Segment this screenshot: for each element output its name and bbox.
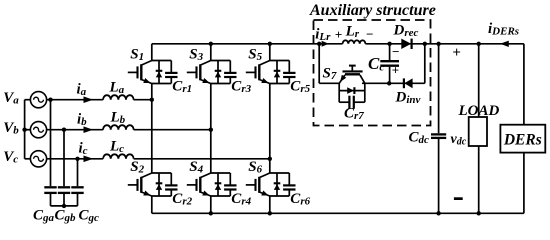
transistor S4 (IGBT): [187, 173, 211, 196]
label La: [109, 79, 125, 96]
svg-text:Cr6: Cr6: [290, 191, 310, 208]
inductor Lr: [343, 40, 366, 44]
svg-text:S1: S1: [130, 46, 144, 63]
junction: phase b / leg: [209, 128, 213, 132]
junction: LOAD / top rail: [477, 42, 481, 46]
label Cdc: [409, 130, 430, 147]
svg-text:Cdc: Cdc: [409, 130, 430, 147]
wire: top DC rail (Lr to DERs corner): [365, 43, 524, 45]
svg-text:La: La: [109, 79, 125, 96]
svg-text:iLr: iLr: [315, 26, 331, 43]
label Cc: [368, 54, 384, 74]
svg-text:Lb: Lb: [110, 109, 126, 126]
label - (Lr right polarity): [366, 27, 374, 42]
svg-text:ic: ic: [79, 141, 88, 158]
filter capacitor Cgc: [71, 159, 83, 206]
label S3: [189, 46, 203, 63]
svg-text:iDERs: iDERs: [488, 21, 519, 38]
wire: leg 2 lower: [210, 196, 212, 213]
wire: source left bus: [25, 100, 31, 159]
label Lc: [109, 139, 124, 156]
label Cr2: [172, 191, 192, 208]
svg-text:Cr4: Cr4: [231, 191, 251, 208]
snubber capacitor C_r3: [224, 61, 236, 84]
junction: Cdc / bottom rail: [436, 211, 440, 215]
svg-text:Va: Va: [3, 90, 19, 107]
antiparallel diode of S7: [339, 87, 365, 94]
svg-text:Cc: Cc: [368, 54, 384, 74]
label: Auxiliary structure title: [309, 2, 436, 19]
antiparallel diode of S2: [156, 173, 163, 196]
label S1: [130, 46, 144, 63]
wire: S3 cell bottom stub: [211, 83, 231, 85]
svg-text:S2: S2: [130, 159, 144, 176]
wire: S4 cell bottom stub: [211, 195, 231, 197]
transistor S7 (IGBT): [339, 66, 365, 84]
junction: leg2 / top rail: [209, 42, 213, 46]
wire: S3 cell top stub: [211, 60, 231, 62]
junction: phase a / leg: [150, 98, 154, 102]
wire: S6 cell bottom stub: [270, 195, 290, 197]
label DERs: [503, 132, 542, 149]
wire: aux right vertical: [424, 44, 426, 84]
capacitor Cdc: [431, 44, 446, 214]
transistor S3 (IGBT): [187, 61, 211, 84]
label Cgb: [55, 207, 77, 224]
AC source Vb: [30, 122, 46, 138]
label + (Lr left polarity): [335, 27, 342, 42]
label Lr: [345, 23, 360, 40]
filter capacitor Cga: [44, 100, 56, 206]
antiparallel diode of S1: [156, 61, 163, 84]
label S4: [189, 159, 203, 176]
junction: filter cap bus: [62, 204, 66, 208]
wire: S7 branch vertical (rail to S7): [318, 44, 320, 84]
wire: leg 1 lower: [151, 196, 153, 213]
label Vb: [3, 120, 19, 137]
svg-text:ia: ia: [77, 82, 87, 99]
snubber capacitor C_r1: [165, 61, 177, 84]
wire: phase a (inductor to leg): [134, 99, 152, 101]
wire: phase b (inductor to leg): [134, 129, 211, 131]
label Cr7: [344, 106, 364, 123]
svg-text:Cga: Cga: [33, 207, 55, 224]
load resistor box: [469, 117, 487, 146]
wire: bottom DC rail: [152, 212, 524, 214]
svg-text:+: +: [392, 63, 399, 78]
label iLr: [315, 26, 331, 43]
transistor S1 (IGBT): [128, 61, 152, 84]
junction: LOAD / bottom rail: [477, 211, 481, 215]
current arrow iDERs: [500, 41, 509, 47]
DERs box: [500, 125, 545, 153]
label ic: [79, 141, 88, 158]
label Cgc: [79, 207, 100, 224]
label Va: [3, 90, 19, 107]
junction: leg2 / bottom rail: [209, 211, 213, 215]
junction: top rail / S7 branch: [317, 42, 321, 46]
svg-text:−: −: [392, 44, 400, 59]
junction: Cc / S7 / Dinv node: [387, 81, 391, 85]
wire: DERs branch lower: [523, 153, 525, 214]
label Cga: [33, 207, 55, 224]
wire: S7 loop left vertical: [338, 83, 340, 102]
wire: S2 cell bottom stub: [152, 195, 172, 197]
snubber capacitor C_r6: [283, 173, 295, 196]
svg-text:DERs: DERs: [503, 132, 542, 149]
wire: S1 cell top stub: [152, 60, 172, 62]
svg-text:+: +: [452, 45, 461, 61]
label Drec: [393, 23, 419, 40]
diode Drec: [401, 39, 411, 49]
wire: S7 loop right vertical: [364, 83, 366, 102]
svg-text:Cr1: Cr1: [172, 79, 192, 96]
capacitor Cc: [380, 44, 399, 84]
svg-text:−: −: [366, 27, 374, 42]
inductor La: [103, 95, 134, 100]
svg-text:Cr2: Cr2: [172, 191, 192, 208]
wire: S4 cell top stub: [211, 172, 231, 174]
antiparallel diode of S4: [215, 173, 222, 196]
label LOAD: [458, 103, 500, 119]
svg-text:Dinv: Dinv: [395, 90, 421, 107]
junction: top rail / aux right branch: [423, 42, 427, 46]
wire: top DC rail (bridge to Lr): [152, 43, 343, 45]
label Dinv: [395, 90, 421, 107]
AC source Va: [30, 92, 46, 108]
junction: leg3 / top rail: [268, 42, 272, 46]
junction: leg3 / bottom rail: [268, 211, 272, 215]
svg-text:vdc: vdc: [451, 132, 467, 148]
wire: S6 cell top stub: [270, 172, 290, 174]
inductor Lb: [103, 125, 134, 130]
label - (Cc top polarity): [392, 44, 400, 59]
snubber capacitor C_r5: [283, 61, 295, 84]
wire: leg 3 lower: [269, 196, 271, 213]
svg-text:Lc: Lc: [109, 139, 124, 156]
antiparallel diode of S5: [274, 61, 281, 84]
svg-text:Auxiliary structure: Auxiliary structure: [309, 2, 436, 19]
label vdc: [451, 132, 467, 148]
junction: left bus / Vb: [22, 128, 26, 132]
label ia: [77, 82, 87, 99]
label S6: [248, 159, 262, 176]
svg-text:Vc: Vc: [3, 149, 18, 166]
label Cr6: [290, 191, 310, 208]
wire: LOAD branch upper: [478, 44, 480, 117]
svg-text:ib: ib: [77, 112, 87, 129]
antiparallel diode of S6: [274, 173, 281, 196]
current arrow ib: [84, 126, 94, 133]
svg-text:Cr3: Cr3: [231, 79, 251, 96]
label Cr4: [231, 191, 251, 208]
transistor S5 (IGBT): [246, 61, 270, 84]
wire: S5 cell top stub: [270, 60, 290, 62]
AC source Vc: [30, 151, 46, 167]
label - (vdc polarity): [454, 197, 463, 200]
label iDERs: [488, 21, 519, 38]
svg-text:Cgb: Cgb: [55, 207, 77, 224]
wire: phase b (source to inductor): [46, 129, 103, 131]
wire: leg 3 middle: [269, 84, 271, 174]
transistor S2 (IGBT): [128, 173, 152, 196]
wire: S1 cell bottom stub: [152, 83, 172, 85]
snubber capacitor Cr7: [339, 96, 365, 109]
inductor Lc: [103, 154, 134, 159]
diode Dinv: [404, 78, 413, 88]
svg-text:Cr5: Cr5: [290, 79, 310, 96]
wire: phase c (inductor to leg): [134, 158, 270, 160]
junction: phase c / filter cap branch: [75, 157, 79, 161]
current arrow ic: [84, 156, 94, 163]
wire: phase c (source to inductor): [46, 158, 103, 160]
label Cr1: [172, 79, 192, 96]
wire: leg 1 middle: [151, 84, 153, 174]
svg-text:+: +: [335, 27, 342, 42]
label + (vdc polarity): [452, 45, 461, 61]
current arrow iLr: [322, 41, 329, 47]
wire: leg 1 upper: [151, 44, 153, 61]
svg-text:S5: S5: [248, 46, 262, 63]
wire: S7 collector wire: [362, 82, 425, 84]
snubber capacitor C_r2: [165, 173, 177, 196]
svg-text:LOAD: LOAD: [458, 103, 500, 119]
label Lb: [110, 109, 126, 126]
current arrow ia: [84, 96, 94, 103]
antiparallel diode of S3: [215, 61, 222, 84]
label + (Cc bottom polarity): [392, 63, 399, 78]
auxiliary structure dashed box: [314, 20, 431, 126]
junction: phase c / leg: [268, 157, 272, 161]
label Cr5: [290, 79, 310, 96]
filter capacitor Cgb: [58, 130, 70, 206]
wire: leg 2 middle: [210, 84, 212, 174]
wire: leg 3 upper: [269, 44, 271, 61]
svg-text:Drec: Drec: [393, 23, 419, 40]
wire: filter cap common bus: [51, 205, 78, 207]
svg-text:S6: S6: [248, 159, 262, 176]
junction: top rail / Cc branch: [387, 42, 391, 46]
label S7: [323, 66, 337, 83]
svg-text:S7: S7: [323, 66, 337, 83]
label ib: [77, 112, 87, 129]
label Cr3: [231, 79, 251, 96]
svg-text:Lr: Lr: [345, 23, 360, 40]
wire: LOAD branch lower: [478, 146, 480, 213]
wire: DERs branch upper: [523, 44, 525, 125]
label S2: [130, 159, 144, 176]
wire: phase a (source to inductor): [46, 99, 103, 101]
junction: phase a / filter cap branch: [48, 98, 52, 102]
wire: S5 cell bottom stub: [270, 83, 290, 85]
svg-text:S4: S4: [189, 159, 203, 176]
wire: leg 2 upper: [210, 44, 212, 61]
svg-text:Cgc: Cgc: [79, 207, 100, 224]
svg-text:S3: S3: [189, 46, 203, 63]
label Vc: [3, 149, 18, 166]
wire: S7 emitter wire: [319, 82, 339, 84]
wire: S2 cell top stub: [152, 172, 172, 174]
transistor S6 (IGBT): [246, 173, 270, 196]
junction: top rail / Cdc branch: [436, 42, 440, 46]
svg-text:Vb: Vb: [3, 120, 19, 137]
junction: phase b / filter cap branch: [62, 128, 66, 132]
label S5: [248, 46, 262, 63]
snubber capacitor C_r4: [224, 173, 236, 196]
